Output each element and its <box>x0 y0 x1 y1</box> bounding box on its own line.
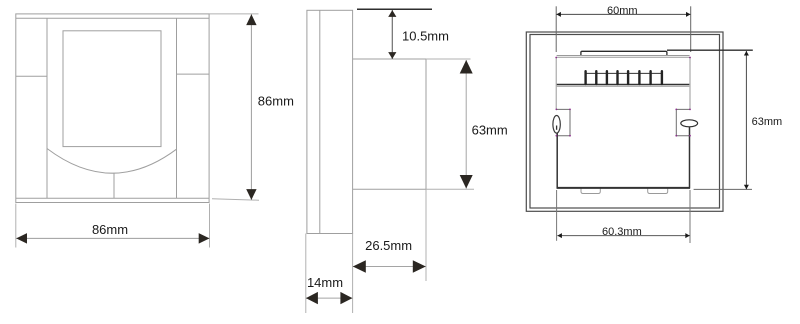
svg-text:26.5mm: 26.5mm <box>365 238 412 253</box>
svg-text:63mm: 63mm <box>472 123 508 138</box>
svg-text:63mm: 63mm <box>752 116 783 128</box>
svg-text:10.5mm: 10.5mm <box>402 28 449 43</box>
svg-text:14mm: 14mm <box>307 275 343 290</box>
svg-text:86mm: 86mm <box>258 93 294 108</box>
svg-text:60mm: 60mm <box>607 5 638 17</box>
svg-text:60.3mm: 60.3mm <box>602 226 642 238</box>
svg-text:86mm: 86mm <box>92 222 128 237</box>
